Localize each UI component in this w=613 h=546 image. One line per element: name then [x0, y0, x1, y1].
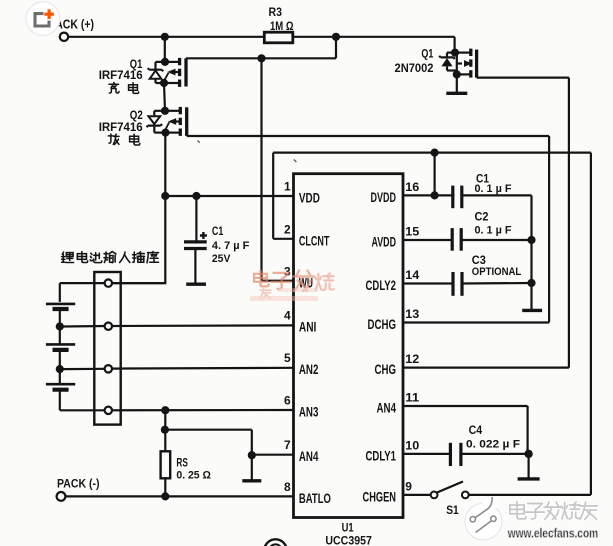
wire kelvin branch to pin7 [165, 429, 252, 431]
svg-text:0. 1 µ F: 0. 1 µ F [475, 183, 512, 195]
svg-text:6: 6 [284, 394, 291, 408]
bottom-center registered logo (clipped) [264, 539, 286, 546]
wire pin14 CDLY2 to C3 [403, 282, 453, 284]
wire Q1 gate to rail node [186, 57, 336, 59]
label 锂电池输入插座 (Li battery input socket) [62, 251, 159, 262]
svg-text:OPTIONAL: OPTIONAL [472, 266, 522, 278]
wire Q2 gate to DCHG (pin13) [186, 135, 188, 137]
wire VDD node (pin1) [165, 195, 293, 197]
svg-text:14: 14 [405, 268, 419, 282]
wire Q2 source down to battery connector [164, 133, 166, 284]
wire pin9 CHGEN to S1 [403, 494, 431, 496]
capacitor C1 4.7uF 25V [195, 196, 197, 241]
ground 2N7002 source [456, 74, 458, 93]
red watermark fragment (elecfans) [250, 271, 334, 302]
svg-text:1: 1 [284, 180, 291, 194]
ground C-bus [522, 309, 542, 312]
battery cell B1 [46, 303, 75, 306]
IC left pin names and numbers [284, 180, 331, 506]
capacitor C4 0.022uF [449, 443, 452, 466]
svg-text:PACK (-): PACK (-) [57, 476, 100, 490]
svg-text:VDD: VDD [299, 190, 320, 206]
svg-text:5: 5 [284, 351, 291, 365]
svg-text:15: 15 [405, 224, 419, 238]
scan artifact ticks [198, 141, 297, 163]
capacitor C3 OPTIONAL [451, 272, 454, 296]
svg-text:CHG: CHG [375, 361, 397, 377]
node R3-right junction [332, 33, 340, 41]
wire top circle to battery + [60, 282, 105, 284]
svg-text:13: 13 [405, 307, 419, 321]
top-left badge icon [26, 2, 60, 36]
wire S1 to right bus [469, 494, 591, 496]
wire pin16 DVDD to C1 [403, 194, 455, 196]
label 充电 (charge) [109, 83, 119, 93]
svg-text:12: 12 [405, 352, 419, 366]
svg-text:C2: C2 [475, 211, 489, 223]
svg-text:CHGEN: CHGEN [363, 489, 397, 505]
capacitor C1 0.1uF [451, 186, 454, 209]
wire rail down to 2N7002 drain [454, 37, 456, 53]
transistor Q1 IRF7416 (charge P-FET) [148, 58, 186, 87]
svg-text:BATLO: BATLO [299, 490, 331, 506]
svg-text:4: 4 [284, 309, 291, 323]
wire sense node down to RS [164, 410, 166, 451]
svg-text:ANI: ANI [299, 319, 317, 335]
wire AN2 (pin5) [63, 368, 105, 371]
terminal PACK(+) [60, 33, 68, 41]
wire node A: Q1-gate-node down to pin3 WU [260, 58, 262, 280]
wire C bus down to ground [530, 195, 532, 309]
wire rail to Q1 drain [164, 37, 166, 62]
svg-text:AN4: AN4 [299, 448, 319, 464]
wire PACK- rail (pin8 BATLO) [66, 495, 294, 497]
ground pin7 branch [251, 455, 253, 481]
svg-text:7: 7 [284, 438, 291, 452]
wire pin10 CDLY1 to C4 [403, 453, 450, 455]
svg-text:UCC3957: UCC3957 [325, 536, 372, 546]
svg-text:8: 8 [284, 480, 291, 494]
svg-text:C1: C1 [212, 226, 224, 238]
svg-text:R3: R3 [269, 5, 283, 19]
svg-text:S1: S1 [446, 505, 459, 517]
switch S1 [431, 492, 438, 499]
transistor Q2 IRF7416 (discharge P-FET) [147, 107, 187, 137]
svg-text:www.elecfans.com: www.elecfans.com [507, 526, 598, 541]
svg-text:U1: U1 [342, 523, 354, 535]
svg-text:Q1: Q1 [130, 59, 143, 71]
svg-text:0. 25 Ω: 0. 25 Ω [176, 470, 211, 482]
watermark text 电子发烧友 (embossed) [510, 502, 598, 520]
svg-text:10: 10 [405, 438, 419, 452]
svg-text:9: 9 [405, 479, 412, 493]
ground C1 [186, 283, 206, 286]
battery cell B2 [46, 343, 75, 346]
svg-text:1M Ω: 1M Ω [270, 21, 294, 33]
svg-text:AVDD: AVDD [372, 234, 397, 250]
label 放电 (discharge) [108, 134, 119, 144]
svg-text:IRF7416: IRF7416 [99, 122, 143, 134]
svg-text:IRF7416: IRF7416 [99, 70, 143, 82]
resistor R3 [264, 32, 293, 43]
wire AN3 (pin6) [112, 409, 294, 411]
IC right pin names and numbers [363, 180, 420, 505]
svg-text:0. 1 µ F: 0. 1 µ F [475, 225, 512, 237]
wire CLCNT (pin2) riser node B [272, 153, 274, 239]
wire pin15 AVDD to C2 [403, 239, 452, 241]
battery cell B3 [46, 383, 75, 386]
wire DVDD drop [434, 153, 436, 196]
svg-text:25V: 25V [212, 253, 231, 265]
svg-text:CDLY2: CDLY2 [366, 277, 397, 293]
svg-text:Q2: Q2 [130, 110, 143, 122]
svg-text:DCHG: DCHG [368, 316, 397, 332]
ground C4 [527, 454, 529, 479]
svg-text:16: 16 [405, 180, 419, 194]
transistor Q1 2N7002 [439, 49, 476, 79]
connector pin circles [105, 279, 112, 286]
svg-text:4. 7 µ F: 4. 7 µ F [212, 240, 250, 252]
IC U1 UCC3957 [294, 174, 404, 518]
svg-text:2N7002: 2N7002 [395, 63, 434, 75]
svg-text:11: 11 [405, 390, 419, 404]
svg-text:DVDD: DVDD [371, 189, 397, 205]
terminal PACK(-) [57, 492, 66, 501]
capacitor C2 0.1uF [451, 228, 454, 251]
svg-text:CLCNT: CLCNT [299, 232, 330, 248]
wire top circle right riser [112, 282, 167, 284]
wire PACK+ rail [68, 36, 264, 38]
svg-text:AN4: AN4 [377, 400, 397, 416]
wire AN1 (pin4) [63, 325, 105, 328]
wire 2N7002 gate to CHG (pin12) [477, 76, 569, 78]
resistor RS 0.25ohm [161, 451, 171, 478]
svg-text:Q1: Q1 [421, 49, 433, 61]
wire S1/DVDD top wire [273, 152, 591, 154]
svg-text:AN2: AN2 [299, 361, 319, 377]
wire battery minus to bottom circle [60, 409, 105, 411]
svg-text:AN3: AN3 [299, 404, 319, 420]
svg-text:CDLY1: CDLY1 [366, 448, 397, 464]
battery connector socket [94, 272, 120, 425]
svg-text:2: 2 [284, 223, 291, 237]
wire Q1 source to Q2 drain [164, 83, 165, 111]
wire pin11 AN4 down to C4 node [403, 405, 528, 407]
bottom-right watermark logo (embossed white) [465, 497, 502, 540]
svg-text:0. 022 µ F: 0. 022 µ F [466, 438, 520, 450]
svg-text:C4: C4 [469, 425, 483, 437]
svg-text:RS: RS [176, 458, 188, 470]
